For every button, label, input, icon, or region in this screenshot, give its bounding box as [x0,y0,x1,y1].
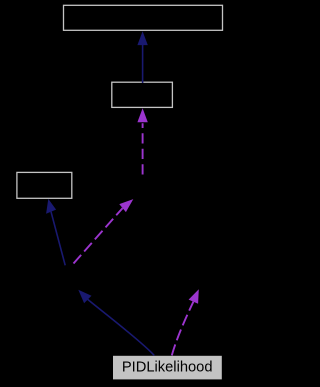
edge E5: solid inheritance arrow PIDLikelihood -> invisible node [78,290,154,356]
node box2 (middle box, grey border) [112,82,173,107]
edge E4: dashed usage arrow (diagonal, to middle-right invisible node) [74,199,134,263]
node PIDLikelihood (grey filled box) [113,356,222,380]
node TObject (top box, grey border) [64,5,223,30]
edge E2: dashed usage arrow (vertical) -> box2 [137,108,147,174]
edge E1: solid inheritance arrow box2 -> top box [137,31,147,83]
svg-text:PIDLikelihood: PIDLikelihood [122,359,213,375]
edge E3: solid inheritance arrow -> left box [46,199,65,265]
node box3 (left box, grey border) [17,172,72,198]
edge E6: dashed usage arrow PIDLikelihood -> invisible node right [172,289,199,355]
